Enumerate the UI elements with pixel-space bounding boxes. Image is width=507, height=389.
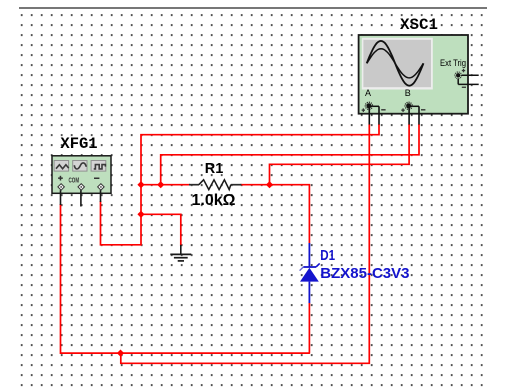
svg-text:1.0kΩ: 1.0kΩ [192,192,236,209]
oscilloscope XSC1 [359,16,479,125]
svg-text:COM: COM [69,175,80,184]
pin - [98,184,105,191]
wire [241,185,310,244]
wire [161,124,419,185]
channel A terminal [362,88,386,112]
svg-text:R1: R1 [205,161,224,177]
resistor R1 [189,161,242,209]
svg-text:XFG1: XFG1 [60,135,97,153]
svg-text:A: A [365,88,371,98]
node J1 [117,349,124,356]
wire [121,124,369,363]
wire [61,204,310,353]
svg-text:BZX85-C3V3: BZX85-C3V3 [320,265,409,282]
wire [378,106,380,124]
svg-text:B: B [405,88,411,98]
node J4 [157,181,164,188]
scope trace A [367,41,424,86]
wire [368,108,370,125]
wire [418,106,420,124]
scope trace B [367,49,423,78]
svg-text:XSC1: XSC1 [400,16,438,34]
channel B terminal [401,88,425,112]
wire [141,214,181,246]
Ext Trig terminal [455,69,479,88]
node J3 [137,211,144,218]
wire [408,108,410,125]
function generator XFG1 [52,135,111,207]
node J2 [137,181,144,188]
ground [170,245,191,261]
wire [308,303,310,354]
pin + [58,184,65,191]
wire [270,124,410,185]
svg-text:D1: D1 [320,248,335,264]
wire [60,190,62,205]
wire [141,184,190,186]
node J5 [266,181,273,188]
diode D1 zener [300,243,410,304]
wire [101,124,380,245]
wire [80,190,82,206]
svg-text:Ext Trig: Ext Trig [440,58,466,68]
wire [100,190,102,202]
pin COM [78,184,85,191]
